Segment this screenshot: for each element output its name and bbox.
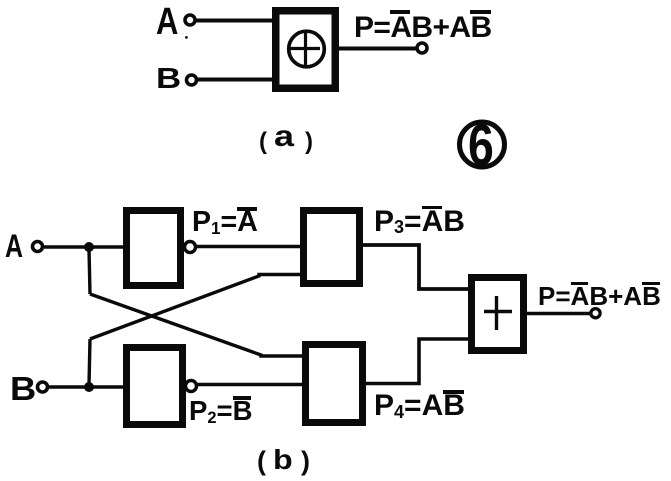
terminal A (part a) <box>185 15 195 25</box>
wire A input (part b) <box>42 245 126 249</box>
label P2=B with overbar <box>189 397 252 425</box>
wire B to XOR gate (part a) <box>197 78 277 82</box>
output wire P (part a) <box>335 47 419 51</box>
XOR gate U1 box (part a) <box>276 11 336 89</box>
terminal B (part b) <box>38 382 48 392</box>
terminal A (part b) <box>33 242 43 252</box>
label P4=AB with overbar on B <box>374 391 465 421</box>
wire A branch vertical <box>89 249 90 294</box>
wire A to XOR gate (part a) <box>193 19 277 23</box>
wire P2 output to AND gate G4 <box>197 383 305 386</box>
wire B input (part b) <box>47 385 126 389</box>
label P3=AB with overbar on A <box>374 207 465 237</box>
label P1=A with overbar <box>192 208 258 237</box>
XOR gate U1 plus vertical stroke <box>304 32 307 65</box>
wire B diagonal cross to G3 <box>90 275 302 340</box>
NOT gate G2 box <box>127 348 183 425</box>
terminal P (part b) <box>591 309 600 318</box>
XOR gate U1 circle symbol <box>289 31 325 67</box>
junction node on B wire <box>84 382 94 392</box>
output label P=AB+AB with overbars (part b) <box>538 283 661 309</box>
NOT gate G1 inversion bubble <box>185 242 196 253</box>
input label A (part b) <box>5 230 23 262</box>
wire P1 output to AND gate G3 <box>196 245 302 248</box>
NOT gate G1 box <box>127 211 181 286</box>
input label A (part a) <box>156 3 178 41</box>
sublabel (a) <box>259 130 267 154</box>
OR gate G5 plus horizontal stroke <box>484 310 512 313</box>
input label B (part b) <box>10 372 36 405</box>
figure number 6 circle <box>460 122 505 167</box>
wire P3 output to OR gate <box>360 245 470 289</box>
input label B (part a) <box>156 65 181 94</box>
wire P4 output to OR gate <box>363 339 470 384</box>
ink speck <box>185 36 188 39</box>
OR gate G5 box <box>472 278 524 351</box>
junction node on A wire <box>84 242 94 252</box>
figure number 6 text <box>468 117 494 175</box>
AND gate G3 box <box>304 211 360 284</box>
AND gate G4 box <box>306 345 363 423</box>
wire B branch vertical <box>89 339 90 385</box>
OR gate G5 plus vertical stroke <box>495 296 498 330</box>
NOT gate G2 inversion bubble <box>186 381 197 392</box>
XOR gate U1 plus horizontal stroke <box>290 47 320 50</box>
sublabel (b) <box>257 448 266 475</box>
output wire P (part b) <box>524 312 592 316</box>
terminal B (part a) <box>187 75 197 85</box>
terminal P (part a) <box>417 43 427 53</box>
wire A diagonal cross to G4 <box>90 294 303 356</box>
output label P=AB+AB with overbars (part a) <box>354 13 492 43</box>
